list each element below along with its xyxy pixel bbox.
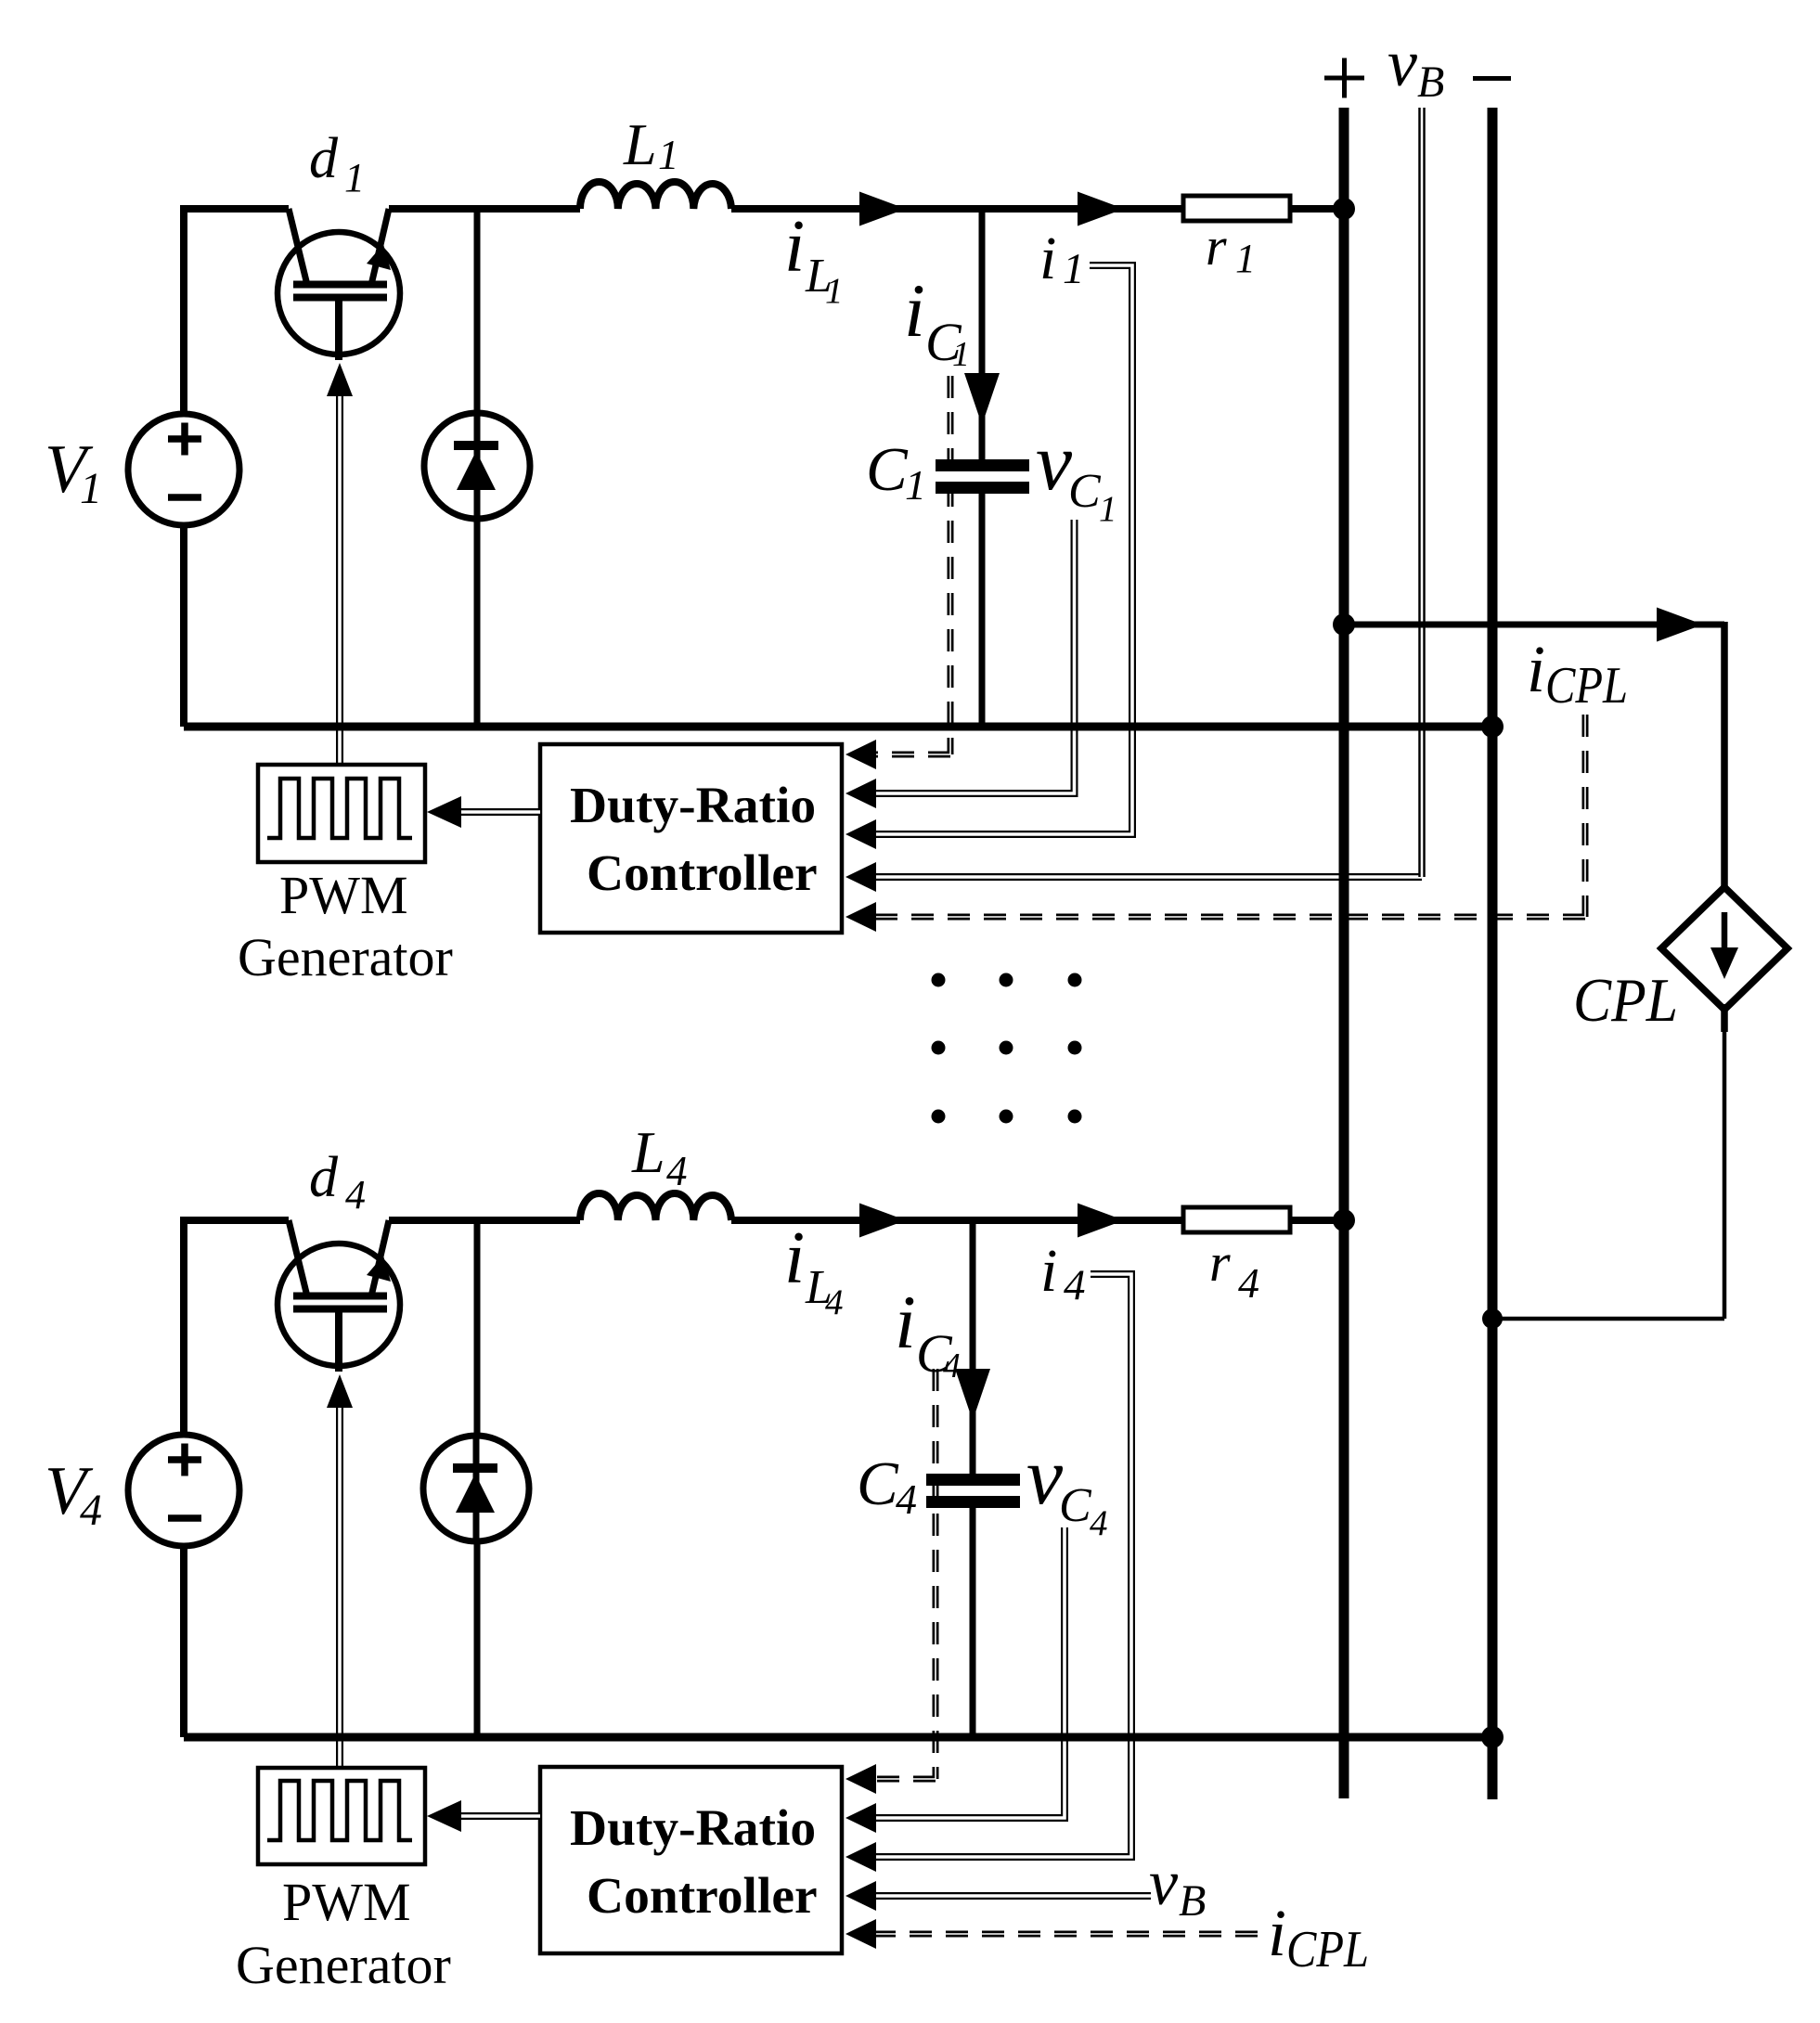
svg-text:v: v: [1036, 418, 1073, 508]
wire arrow i4 on top rail: [1078, 1204, 1124, 1238]
wire CPL return to - bus: [1492, 1004, 1724, 1319]
svg-text:PWM: PWM: [279, 865, 408, 925]
wire vC1 voltage-sense line (hollow): [874, 520, 1075, 793]
svg-text:1: 1: [1099, 489, 1117, 529]
node positive DC bus (+): [1339, 108, 1349, 1798]
svg-text:i: i: [784, 1218, 805, 1299]
wire top rail converter 1: [184, 205, 1348, 213]
op-amp Duty-Ratio Controller 4 box: [540, 1767, 842, 1953]
svg-text:Controller: Controller: [587, 1868, 818, 1925]
current source CPL (diamond): [1661, 887, 1788, 1010]
svg-text:4: 4: [943, 1347, 961, 1385]
svg-text:Controller: Controller: [587, 845, 818, 902]
svg-text:i: i: [904, 268, 925, 353]
wire iC1 current-sense dashed feedback: [874, 376, 950, 754]
svg-text:CPL: CPL: [1573, 966, 1678, 1035]
wire left rail converter 4: [180, 1217, 187, 1737]
label vC4: [1026, 1432, 1108, 1543]
label d1: [309, 127, 365, 200]
svg-text:Duty-Ratio: Duty-Ratio: [570, 1800, 816, 1857]
wire i1 current-sense line (hollow): [874, 265, 1132, 834]
wire arrow i1 on top rail: [1078, 192, 1124, 226]
source V1: [128, 414, 239, 525]
wire arrow input vC1 into controller 1: [845, 779, 876, 808]
label PWM Generator 1: [238, 865, 453, 987]
wire bottom rail converter 4: [184, 1733, 1497, 1742]
diode D4 (freewheeling): [423, 1436, 529, 1541]
svg-text:i: i: [895, 1280, 916, 1364]
wire arrow input iCPL into controller 1: [845, 902, 876, 932]
node junction CPL return to - bus: [1482, 1308, 1503, 1329]
svg-text:d: d: [309, 127, 339, 190]
resistor r4: [1183, 1207, 1290, 1232]
svg-text:C: C: [857, 1450, 899, 1518]
wire left rail converter 1: [180, 205, 187, 727]
label V4: [45, 1453, 102, 1535]
capacitor C4: [926, 1474, 1020, 1737]
svg-text:L: L: [623, 111, 657, 177]
wire gate drive line d1 (hollow): [327, 363, 353, 765]
svg-text:4: 4: [666, 1148, 688, 1194]
wire arrow input i4 into controller 4: [845, 1842, 876, 1872]
label vB bus voltage: [1388, 26, 1444, 107]
node junction bottom rail 1 to - bus: [1481, 715, 1504, 738]
svg-text:1: 1: [1235, 236, 1256, 281]
label L1: [623, 111, 679, 178]
svg-text:4: 4: [1238, 1259, 1259, 1307]
svg-text:i: i: [1268, 1896, 1286, 1970]
svg-text:i: i: [1040, 1237, 1057, 1305]
svg-text:1: 1: [1063, 245, 1085, 293]
label iC4: [895, 1280, 961, 1385]
wire top rail converter 4: [184, 1217, 1348, 1224]
svg-text:v: v: [1026, 1432, 1064, 1522]
svg-text:1: 1: [80, 464, 102, 513]
label i4: [1040, 1237, 1086, 1309]
svg-text:v: v: [1388, 26, 1417, 100]
svg-text:1: 1: [825, 271, 844, 311]
wire gate drive line d4 (hollow): [327, 1374, 353, 1768]
label L4: [631, 1119, 688, 1194]
ellipsis dots (repeated converters): [932, 973, 1082, 1124]
wire i4 current-sense line (hollow): [874, 1274, 1131, 1857]
wire iCPL dashed feedback to controller 4: [874, 1931, 1258, 1938]
svg-text:i: i: [784, 206, 805, 288]
wire arrow input i1 into controller 1: [845, 819, 876, 849]
svg-text:4: 4: [896, 1475, 917, 1523]
svg-text:CPL: CPL: [1545, 657, 1628, 715]
wire vB sense input to controller 1 (hollow): [874, 873, 1422, 881]
label C1: [866, 435, 926, 509]
label - polarity of vB: [1473, 76, 1511, 81]
svg-text:4: 4: [80, 1486, 102, 1535]
label iCPL top: [1527, 632, 1628, 715]
wire vC4 voltage-sense line (hollow): [874, 1527, 1065, 1818]
svg-text:r: r: [1209, 1232, 1231, 1293]
wire arrow input iC1 into controller 1: [845, 740, 876, 769]
svg-text:Duty-Ratio: Duty-Ratio: [570, 778, 816, 834]
svg-text:Generator: Generator: [238, 927, 453, 987]
svg-text:i: i: [1527, 632, 1545, 706]
wire iCPL dashed feedback to controller 1: [874, 715, 1585, 917]
inductor L4: [580, 1193, 731, 1220]
wire diode branch converter 1: [474, 209, 481, 727]
node negative DC bus (-): [1488, 108, 1498, 1799]
wire iC4 current-sense dashed feedback: [874, 1369, 936, 1779]
label vC1: [1036, 418, 1117, 529]
node junction + bus to CPL feed: [1333, 613, 1355, 636]
svg-text:PWM: PWM: [282, 1872, 411, 1932]
svg-text:4: 4: [345, 1172, 366, 1218]
label C4: [857, 1450, 917, 1523]
capacitor C1: [936, 459, 1029, 727]
wire arrow input vC4 into controller 4: [845, 1803, 876, 1833]
wire arrow iL1 on top rail: [859, 192, 906, 226]
capacitor C4 branch arrow iC4: [955, 1220, 990, 1474]
wire CPL feed from + bus with arrow: [1344, 608, 1724, 890]
wire arrow input vB into controller 4: [845, 1881, 876, 1911]
label iL1: [784, 206, 844, 311]
PWM Generator 1 box: [258, 765, 425, 862]
source V4: [128, 1435, 239, 1546]
wire arrow input iCPL into controller 4: [845, 1919, 876, 1949]
label PWM Generator 4: [236, 1872, 451, 1995]
node junction r1 to + bus: [1333, 198, 1355, 220]
label i1: [1039, 225, 1085, 293]
svg-text:B: B: [1179, 1876, 1206, 1926]
wire arrow iL4 on top rail: [859, 1204, 906, 1238]
svg-text:4: 4: [825, 1282, 844, 1322]
wire vB bus sense line (hollow, between buses): [1418, 108, 1426, 877]
svg-text:d: d: [309, 1146, 339, 1209]
wire arrow input iC4 into controller 4: [845, 1764, 876, 1794]
PWM Generator 4 box: [258, 1768, 425, 1864]
diode D1 (freewheeling): [424, 413, 530, 519]
wire vB sense input to controller 4 (hollow): [874, 1892, 1151, 1900]
svg-text:C: C: [866, 435, 909, 504]
svg-text:i: i: [1039, 225, 1056, 292]
label vB at controller 4 input: [1149, 1848, 1206, 1926]
svg-text:1: 1: [952, 335, 970, 374]
svg-text:4: 4: [1090, 1503, 1108, 1543]
wire diode branch converter 4: [474, 1220, 481, 1737]
svg-text:CPL: CPL: [1286, 1921, 1369, 1978]
node junction bottom rail 4 to - bus: [1481, 1726, 1504, 1748]
svg-text:r: r: [1206, 216, 1227, 277]
label CPL: [1573, 966, 1678, 1035]
label + polarity of vB: [1324, 58, 1364, 98]
transistor d1 (IGBT switch): [278, 209, 400, 360]
label V1: [45, 432, 102, 513]
wire controller 1 to PWM generator 1 (hollow arrow): [427, 796, 540, 828]
label r4: [1209, 1232, 1259, 1307]
label iC1: [904, 268, 970, 374]
label r1: [1206, 216, 1256, 281]
transistor d4 (IGBT switch): [278, 1220, 400, 1372]
capacitor C1 branch arrow iC1: [964, 209, 1000, 459]
wire arrow input vB into controller 1: [845, 862, 876, 892]
resistor r1: [1183, 196, 1290, 221]
wire controller 4 to PWM generator 4 (hollow arrow): [427, 1800, 540, 1832]
svg-text:B: B: [1417, 58, 1444, 107]
label iCPL at controller 4 input: [1268, 1896, 1369, 1978]
svg-text:C: C: [1068, 465, 1102, 518]
op-amp Duty-Ratio Controller 1 box: [540, 744, 842, 933]
svg-text:C: C: [1059, 1479, 1092, 1532]
svg-text:Generator: Generator: [236, 1935, 451, 1995]
svg-text:1: 1: [344, 155, 365, 200]
svg-text:L: L: [631, 1119, 665, 1185]
label d4: [309, 1146, 366, 1218]
svg-text:1: 1: [905, 461, 926, 509]
svg-text:4: 4: [1064, 1261, 1086, 1309]
svg-text:1: 1: [658, 132, 679, 178]
inductor L1: [580, 182, 731, 209]
svg-text:v: v: [1149, 1848, 1179, 1919]
wire bottom rail converter 1: [184, 723, 1497, 731]
node junction r4 to + bus: [1333, 1209, 1355, 1231]
label iL4: [784, 1218, 844, 1322]
